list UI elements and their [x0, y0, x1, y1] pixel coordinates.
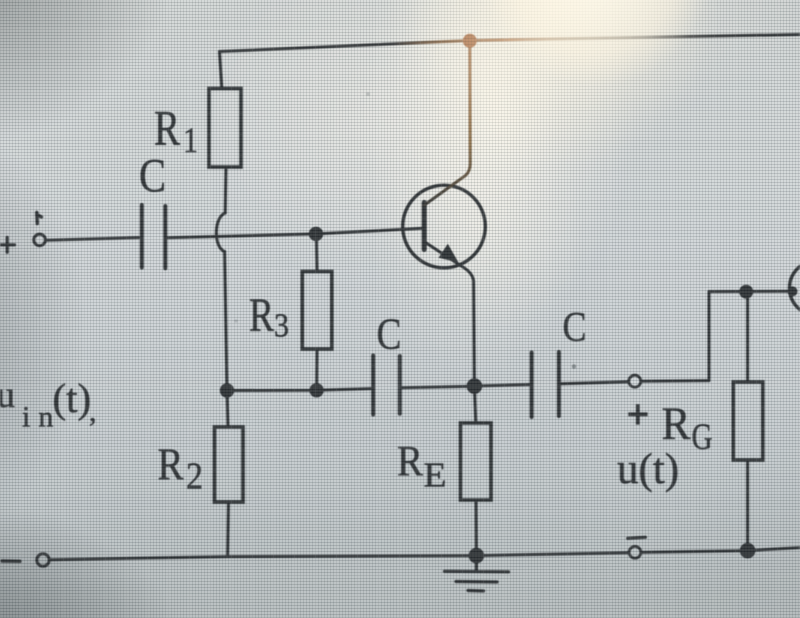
- wire R1 bottom lead: [224, 167, 228, 213]
- wire corner up: [708, 292, 711, 381]
- wire top to right edge: [709, 290, 794, 293]
- capacitor C out left plate: [530, 353, 534, 418]
- minus mark above output bottom terminal: [628, 537, 646, 538]
- wire ground rail: [51, 553, 629, 560]
- wire R1 top lead: [220, 52, 222, 89]
- resistor R1: [209, 89, 241, 168]
- terminal plus sign input: [0, 238, 15, 253]
- transistor Q1 circle: [403, 185, 486, 268]
- label plus output: [628, 404, 647, 424]
- wire R3 bottom lead: [315, 349, 318, 390]
- node R3 bottom: [309, 383, 323, 397]
- wire divider vertical to node A: [225, 252, 227, 391]
- wire RG bottom lead: [746, 460, 749, 551]
- node right edge: [788, 286, 798, 296]
- bottom left terminal circle: [37, 554, 49, 566]
- wire base node to transistor base: [316, 228, 422, 234]
- wire hop over input wire: [216, 213, 225, 252]
- wire capacitor to base node: [168, 234, 317, 238]
- resistor R2: [215, 427, 244, 502]
- wire input to capacitor: [46, 238, 139, 241]
- node bottom right: [740, 543, 756, 559]
- wire middle emitter to capacitor out: [476, 385, 530, 386]
- resistor RE: [461, 423, 492, 500]
- wire output terminal to corner: [641, 379, 709, 383]
- wire Vcc top rail: [220, 35, 800, 52]
- node supply junction: [463, 34, 477, 48]
- speck: [366, 92, 370, 96]
- node RG top: [739, 285, 753, 299]
- capacitor C mid right plate: [398, 356, 402, 414]
- connector arc right edge: [790, 261, 800, 316]
- terminal minus sign bottom left: [2, 559, 20, 563]
- input arrow mark: [37, 213, 42, 224]
- resistor RE top lead: [474, 386, 475, 423]
- transistor Q1 emitter arrow: [439, 244, 459, 263]
- wire capacitor to output terminal: [561, 382, 629, 384]
- wire R2 bottom lead: [226, 502, 230, 557]
- resistor R3: [302, 272, 332, 350]
- ground symbol: [445, 556, 509, 591]
- capacitor C mid left plate: [371, 356, 375, 415]
- node base node: [309, 227, 323, 241]
- output terminal circle plus: [629, 375, 641, 387]
- wire ground rail right: [641, 548, 800, 553]
- transistor Q1 base bar: [422, 203, 427, 250]
- transistor Q1 collector lead: [424, 41, 470, 206]
- capacitor C input left plate: [140, 205, 144, 268]
- transistor Q1 emitter lead: [424, 242, 474, 387]
- node emitter junction: [467, 378, 483, 394]
- capacitor C input right plate: [163, 206, 167, 268]
- node divider A: [220, 383, 234, 397]
- resistor R3 top lead: [315, 240, 319, 272]
- speck: [234, 319, 237, 322]
- node ground junction: [469, 548, 485, 564]
- resistor RG top lead: [746, 292, 749, 382]
- resistor R2 top lead: [227, 391, 228, 428]
- wire RE bottom lead: [475, 500, 478, 556]
- wire middle node A to capacitor: [227, 389, 371, 391]
- wire capacitor to emitter node: [402, 386, 474, 388]
- output terminal circle minus: [629, 546, 641, 558]
- resistor RG: [733, 382, 763, 460]
- speck: [572, 364, 576, 368]
- capacitor C out right plate: [557, 352, 561, 416]
- input terminal circle: [34, 234, 46, 246]
